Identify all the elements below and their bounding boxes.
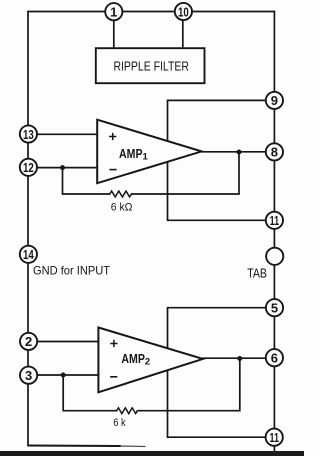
svg-text:2: 2: [25, 334, 32, 349]
svg-text:13: 13: [23, 127, 34, 142]
pin 11 circle: [266, 212, 283, 229]
wire AMP1 output to pin8: [202, 151, 267, 153]
wire pin12 to AMP1 - input: [28, 167, 97, 169]
svg-text:5: 5: [271, 301, 278, 316]
svg-text:10: 10: [178, 4, 189, 19]
resistor R2 6 k zigzag: [117, 408, 138, 414]
wire bottom border (partial, fades): [28, 445, 120, 448]
node junction dot AMP2 output: [237, 356, 242, 361]
wire AMP2 bottom edge to pin11 bottom: [168, 370, 267, 437]
wire pin3 to AMP2 - input: [28, 374, 98, 376]
pin 10 circle: [175, 3, 192, 20]
op-amp AMP1 triangle: [97, 120, 201, 184]
wire AMP1 top edge to pin9: [168, 100, 267, 141]
pin 2 circle: [20, 333, 37, 350]
svg-text:TAB: TAB: [247, 265, 267, 280]
node junction dot AMP2 inverting input: [61, 373, 66, 378]
node junction dot AMP1 output: [237, 150, 242, 155]
op-amp AMP2 triangle: [98, 328, 202, 393]
svg-text:12: 12: [23, 160, 34, 175]
wire pin2 to AMP2 + input: [28, 341, 98, 343]
svg-text:6: 6: [271, 351, 278, 366]
pin 8 circle: [266, 143, 283, 160]
wire AMP1 bottom edge to pin11: [168, 162, 267, 221]
svg-text:GND for INPUT: GND for INPUT: [33, 264, 111, 278]
wire AMP1 feedback: node to resistor to output: [63, 152, 240, 194]
wire left border: [27, 12, 29, 446]
pin 3 circle: [20, 367, 37, 384]
AMP1 plus input symbol: [109, 133, 116, 140]
AMP1 minus input symbol: [109, 169, 116, 171]
pin 13 circle: [20, 125, 37, 142]
resistor R1 6 kOhm zigzag: [110, 191, 132, 197]
pin 6 circle: [266, 349, 283, 366]
svg-text:RIPPLE FILTER: RIPPLE FILTER: [113, 59, 189, 74]
wire pin1 to ripple filter: [113, 12, 115, 49]
TAB circle: [266, 248, 283, 265]
svg-text:11: 11: [269, 430, 279, 445]
wire AMP2 feedback: node to resistor to output: [63, 359, 240, 411]
pin 12 circle: [20, 159, 37, 176]
svg-text:6 k: 6 k: [113, 417, 126, 429]
wire AMP2 output to pin6: [203, 357, 266, 359]
svg-text:3: 3: [25, 368, 32, 383]
pin 14 circle: [20, 246, 37, 263]
wire right border: [273, 12, 275, 456]
wire pin10 to ripple filter: [182, 12, 184, 49]
svg-text:14: 14: [23, 247, 34, 262]
svg-text:6 kΩ: 6 kΩ: [111, 202, 133, 214]
wire AMP2 top edge to pin5: [168, 308, 267, 349]
AMP2 minus input symbol: [110, 376, 117, 378]
pin 5 circle: [266, 299, 283, 316]
scan artifact: dark bottom band: [0, 451, 304, 456]
wire top border: [28, 11, 274, 13]
svg-text:11: 11: [270, 213, 280, 228]
svg-text:8: 8: [271, 145, 278, 160]
svg-text:9: 9: [271, 93, 278, 108]
svg-text:1: 1: [110, 5, 117, 20]
pin 1 circle: [105, 3, 122, 20]
pin 9 circle: [266, 92, 283, 109]
node junction dot AMP1 inverting input: [60, 165, 65, 170]
AMP2 plus input symbol: [110, 340, 117, 347]
wire pin13 to AMP1 + input: [28, 133, 97, 135]
pin 11 bottom circle: [266, 429, 283, 446]
ripple filter box: [96, 48, 205, 83]
